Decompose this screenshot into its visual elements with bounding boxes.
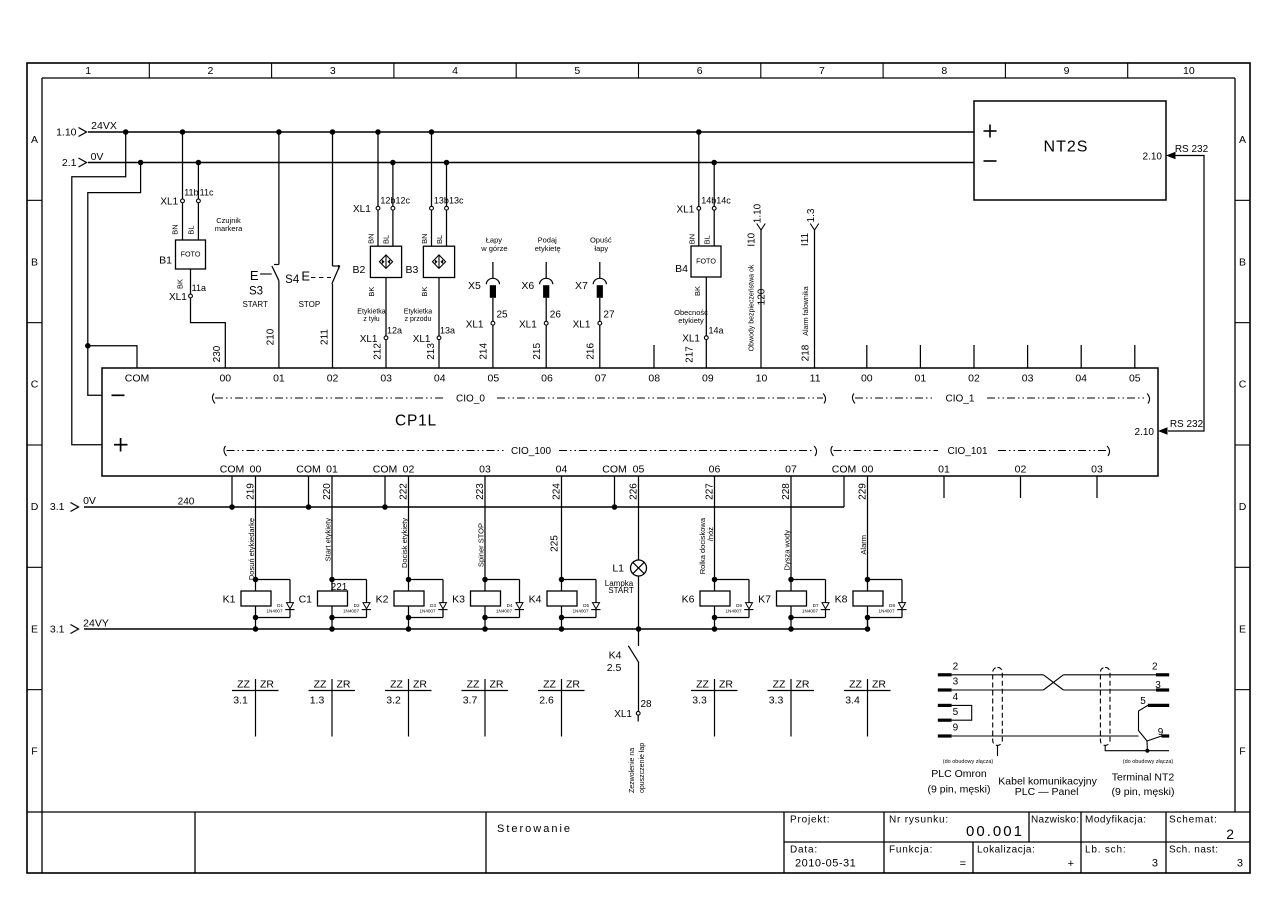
- svg-text:02: 02: [403, 464, 415, 476]
- svg-text:05: 05: [1129, 373, 1141, 385]
- svg-text:etykiety: etykiety: [678, 316, 704, 325]
- svg-text:opuszczenie łap: opuszczenie łap: [639, 743, 646, 793]
- cross-reference table ZZ/ZR 3.2 at x=408.5: [385, 679, 432, 737]
- relay K4: [529, 476, 601, 632]
- svg-text:ZR: ZR: [872, 679, 886, 691]
- svg-text:220: 220: [322, 483, 333, 500]
- svg-text:3: 3: [1152, 858, 1158, 870]
- svg-text:01: 01: [326, 464, 338, 476]
- svg-text:27: 27: [603, 310, 615, 321]
- svg-text:ZR: ZR: [413, 679, 427, 691]
- svg-text:07: 07: [595, 373, 607, 385]
- svg-text:CP1L: CP1L: [395, 413, 437, 430]
- svg-text:2.1: 2.1: [62, 157, 77, 169]
- svg-text:I10: I10: [746, 232, 757, 246]
- svg-text:10: 10: [1183, 65, 1195, 77]
- svg-text:1.3: 1.3: [806, 208, 817, 222]
- svg-text:03: 03: [1091, 464, 1103, 476]
- svg-text:B: B: [1239, 256, 1246, 268]
- svg-text:2: 2: [208, 65, 214, 77]
- stub wires CIO_1 00-05: [867, 345, 1135, 368]
- wire 24VX rail: [88, 131, 974, 133]
- svg-text:CIO_1: CIO_1: [946, 394, 975, 405]
- svg-text:NT2S: NT2S: [1044, 139, 1089, 156]
- svg-text:212: 212: [373, 343, 384, 360]
- svg-text:BL: BL: [381, 235, 390, 244]
- svg-text:PLC Omron: PLC Omron: [931, 768, 987, 780]
- svg-text:223: 223: [475, 483, 486, 500]
- svg-text:ZZ: ZZ: [773, 679, 786, 691]
- svg-text:3: 3: [330, 65, 336, 77]
- svg-text:XL1: XL1: [573, 319, 591, 330]
- svg-text:218: 218: [801, 344, 812, 361]
- svg-text:Lb. sch:: Lb. sch:: [1085, 845, 1126, 856]
- svg-text:215: 215: [532, 343, 543, 360]
- svg-text:XL1: XL1: [353, 204, 371, 215]
- svg-text:0V: 0V: [83, 495, 96, 507]
- svg-text:B2: B2: [353, 264, 366, 276]
- svg-text:2.5: 2.5: [607, 662, 622, 674]
- cross-reference table ZZ/ZR 3.1 at x=255.5: [232, 679, 279, 737]
- wire PLC COM to 0V at x=614.5: [612, 476, 618, 510]
- svg-text:3: 3: [953, 677, 959, 688]
- svg-text:ZZ: ZZ: [467, 679, 480, 691]
- svg-text:Obwody bezpieczeństwa ok: Obwody bezpieczeństwa ok: [748, 264, 755, 351]
- svg-text:5: 5: [953, 707, 959, 718]
- svg-text:Terminal NT2: Terminal NT2: [1112, 772, 1175, 784]
- svg-text:BN: BN: [687, 234, 696, 244]
- svg-text:BN: BN: [171, 224, 180, 234]
- svg-text:Funkcja:: Funkcja:: [889, 845, 933, 856]
- svg-text:3.1: 3.1: [233, 695, 248, 707]
- svg-text:XL1: XL1: [466, 319, 484, 330]
- lamp L1 (Lampka START): [605, 476, 647, 632]
- svg-text:03: 03: [1022, 373, 1034, 385]
- svg-text:5: 5: [574, 65, 580, 77]
- svg-text:01: 01: [273, 373, 285, 385]
- relay K2 (Docisk etykiety): [376, 476, 448, 632]
- svg-text:226: 226: [628, 483, 639, 500]
- relay K7 (Dysza wody): [758, 476, 830, 632]
- svg-text:3.1: 3.1: [50, 501, 65, 513]
- photo sensor B4 (Obecnosc etykiety): [674, 129, 731, 368]
- svg-text:COM: COM: [373, 464, 398, 476]
- svg-text:219: 219: [246, 483, 257, 500]
- wire 24VY rail: [84, 618, 868, 629]
- relay K6 (Rolka dociskowa/noz): [682, 476, 754, 632]
- svg-text:8: 8: [941, 65, 947, 77]
- svg-text:1.3: 1.3: [310, 695, 325, 707]
- relay K1 (Dosun etykiedarke): [223, 476, 295, 632]
- cross-reference table ZZ/ZR 2.6 at x=561.5: [538, 679, 585, 737]
- svg-text:E: E: [301, 269, 310, 284]
- svg-text:214: 214: [479, 343, 490, 360]
- svg-text:Etykietka: Etykietka: [404, 308, 433, 315]
- svg-text:14b14c: 14b14c: [701, 195, 731, 205]
- svg-text:Zezwolenie na: Zezwolenie na: [629, 748, 636, 793]
- svg-text:ZR: ZR: [566, 679, 580, 691]
- svg-text:ZR: ZR: [796, 679, 810, 691]
- svg-text:2.10: 2.10: [1135, 427, 1155, 438]
- svg-text:BN: BN: [367, 233, 376, 243]
- signal I11 (Alarm falownika, from 1.3): [800, 208, 819, 368]
- svg-text:BL: BL: [435, 235, 444, 244]
- svg-text:3.4: 3.4: [845, 695, 860, 707]
- svg-text:E: E: [31, 623, 38, 635]
- svg-text:2: 2: [953, 662, 959, 673]
- svg-text:1N4007: 1N4007: [572, 608, 589, 613]
- svg-text:markera: markera: [215, 224, 243, 233]
- svg-text:3: 3: [1237, 858, 1243, 870]
- svg-text:04: 04: [434, 373, 446, 385]
- svg-text:/nóż: /nóż: [706, 527, 715, 541]
- svg-text:START: START: [608, 586, 634, 595]
- svg-text:3.1: 3.1: [50, 624, 65, 636]
- proximity switch X5 (Lapy w gorze): [466, 236, 508, 369]
- svg-text:210: 210: [266, 328, 277, 345]
- svg-text:ZZ: ZZ: [390, 679, 403, 691]
- svg-text:217: 217: [685, 346, 696, 363]
- svg-text:Schemat:: Schemat:: [1169, 815, 1218, 826]
- svg-text:Data:: Data:: [790, 845, 818, 856]
- relay K3 (Spiner STOP): [452, 476, 524, 632]
- svg-text:XL1: XL1: [519, 319, 537, 330]
- signal I10 (Obwody bezpieczenstwa ok, from 1.10): [746, 203, 767, 368]
- svg-text:7: 7: [819, 65, 825, 77]
- svg-text:1N4007: 1N4007: [419, 608, 436, 613]
- svg-text:1N4007: 1N4007: [725, 608, 742, 613]
- wire 0V output rail: [84, 476, 844, 508]
- svg-text:COM: COM: [220, 464, 245, 476]
- svg-text:28: 28: [641, 699, 653, 710]
- svg-text:etykietę: etykietę: [535, 244, 561, 253]
- svg-text:Projekt:: Projekt:: [790, 815, 830, 826]
- svg-text:B1: B1: [159, 255, 172, 267]
- svg-text:C: C: [1239, 379, 1247, 391]
- contact K4 2.5 (Zezwolenie na opuszczenie lap): [607, 629, 652, 793]
- svg-text:09: 09: [702, 373, 714, 385]
- svg-text:Alarm: Alarm: [859, 535, 868, 555]
- svg-text:A: A: [1239, 134, 1246, 146]
- svg-text:X6: X6: [521, 280, 534, 292]
- svg-text:4: 4: [452, 65, 458, 77]
- svg-text:z przodu: z przodu: [405, 316, 432, 323]
- source arrow 1.10 24VX: [56, 120, 117, 139]
- svg-text:Sch. nast:: Sch. nast:: [1169, 845, 1218, 856]
- svg-text:ZR: ZR: [260, 679, 274, 691]
- svg-text:RS 232: RS 232: [1175, 144, 1209, 155]
- svg-text:CIO_101: CIO_101: [947, 446, 987, 457]
- svg-text:13b13c: 13b13c: [434, 195, 464, 205]
- cross-reference table ZZ/ZR 3.3 at x=714.5: [691, 679, 738, 737]
- cross-reference table ZZ/ZR 3.4 at x=867.5: [844, 679, 891, 737]
- svg-text:1N4007: 1N4007: [496, 608, 513, 613]
- svg-text:B: B: [31, 256, 38, 268]
- stub wire terminal 08: [653, 345, 655, 368]
- source arrow 3.1 24VY: [50, 618, 109, 636]
- svg-text:Spiner STOP: Spiner STOP: [477, 523, 486, 567]
- svg-text:A: A: [31, 134, 38, 146]
- svg-text:05: 05: [633, 464, 645, 476]
- panel terminal NT2S: [974, 101, 1166, 200]
- reflex sensor B2 (Etykietka z tylu): [353, 129, 411, 368]
- svg-text:230: 230: [212, 345, 223, 362]
- svg-text:120: 120: [757, 288, 768, 305]
- svg-text:24VX: 24VX: [91, 120, 117, 132]
- svg-text:COM: COM: [296, 464, 321, 476]
- svg-text:D: D: [31, 501, 39, 513]
- svg-text:07: 07: [785, 464, 797, 476]
- svg-text:3.3: 3.3: [769, 695, 784, 707]
- svg-text:26: 26: [550, 310, 562, 321]
- svg-text:XL1: XL1: [160, 197, 178, 208]
- svg-text:216: 216: [586, 343, 597, 360]
- source arrow 2.1 0V: [62, 151, 104, 169]
- svg-text:2.6: 2.6: [539, 695, 554, 707]
- svg-text:K1: K1: [223, 594, 236, 606]
- svg-text:X5: X5: [468, 280, 481, 292]
- svg-text:(do obudowy złącza): (do obudowy złącza): [943, 759, 994, 765]
- wire 0V rail: [88, 162, 974, 164]
- svg-text:BK: BK: [420, 287, 429, 297]
- svg-text:06: 06: [709, 464, 721, 476]
- svg-text:24VY: 24VY: [83, 618, 109, 630]
- svg-text:12b12c: 12b12c: [380, 195, 410, 205]
- svg-text:03: 03: [380, 373, 392, 385]
- svg-text:Dysza wody: Dysza wody: [783, 530, 792, 571]
- svg-text:221: 221: [331, 582, 348, 593]
- svg-text:w górze: w górze: [480, 244, 507, 253]
- svg-text:COM: COM: [602, 464, 627, 476]
- svg-text:ZZ: ZZ: [237, 679, 250, 691]
- svg-text:02: 02: [327, 373, 339, 385]
- svg-text:B4: B4: [675, 263, 688, 275]
- svg-text:06: 06: [541, 373, 553, 385]
- wire RS 232 NT2S to PLC: [1135, 144, 1209, 438]
- svg-text:D: D: [1239, 501, 1247, 513]
- svg-text:224: 224: [552, 483, 563, 500]
- svg-text:CIO_100: CIO_100: [511, 446, 551, 457]
- svg-text:229: 229: [858, 483, 869, 500]
- svg-text:(9 pin, męski): (9 pin, męski): [1111, 786, 1174, 798]
- svg-text:K6: K6: [682, 594, 695, 606]
- svg-text:3: 3: [1155, 680, 1161, 691]
- svg-text:ZZ: ZZ: [849, 679, 862, 691]
- svg-text:4: 4: [953, 692, 959, 703]
- svg-text:FOTO: FOTO: [181, 249, 201, 258]
- svg-text:11a: 11a: [192, 283, 206, 293]
- stub wires CIO_101 01-03: [944, 476, 1097, 498]
- wire PLC COM to 0V at x=232: [229, 476, 235, 510]
- svg-text:BL: BL: [703, 235, 712, 244]
- svg-text:Docisk etykiety: Docisk etykiety: [400, 518, 409, 568]
- svg-text:START: START: [242, 300, 268, 309]
- svg-text:02: 02: [1015, 464, 1027, 476]
- svg-text:1.10: 1.10: [56, 127, 77, 139]
- proximity switch X7 (Opusc lapy): [573, 236, 615, 369]
- svg-text:Rolka dociskowa: Rolka dociskowa: [698, 517, 707, 574]
- wire 24VX to PLC plus: [72, 129, 129, 444]
- wire PLC COM to 0V at x=385: [382, 476, 388, 510]
- svg-text:04: 04: [556, 464, 568, 476]
- wire PLC COM to 0V at x=308.5: [306, 476, 312, 510]
- svg-text:0V: 0V: [91, 151, 104, 163]
- svg-text:10: 10: [756, 373, 768, 385]
- svg-text:ZR: ZR: [490, 679, 504, 691]
- svg-text:213: 213: [426, 343, 437, 360]
- svg-text:L1: L1: [612, 563, 624, 575]
- svg-text:03: 03: [479, 464, 491, 476]
- svg-text:XL1: XL1: [677, 204, 695, 215]
- connector cable diagram PLC Omron - Terminal NT2: [927, 662, 1174, 799]
- svg-text:14a: 14a: [708, 325, 723, 335]
- svg-text:3.2: 3.2: [386, 695, 401, 707]
- svg-text:XL1: XL1: [169, 292, 187, 303]
- svg-text:BN: BN: [420, 233, 429, 243]
- cross-reference table ZZ/ZR 1.3 at x=332: [309, 679, 356, 737]
- proximity switch X6 (Podaj etykiete): [519, 236, 561, 369]
- svg-text:02: 02: [968, 373, 980, 385]
- svg-text:225: 225: [550, 535, 561, 552]
- svg-text:(9 pin, męski): (9 pin, męski): [927, 783, 990, 795]
- svg-text:1N4007: 1N4007: [878, 608, 895, 613]
- svg-text:11b: 11b: [184, 188, 198, 198]
- svg-text:Nazwisko:: Nazwisko:: [1031, 815, 1079, 826]
- svg-text:+: +: [1068, 858, 1074, 870]
- svg-text:K4: K4: [609, 649, 622, 661]
- svg-text:S3: S3: [249, 286, 263, 298]
- svg-text:00: 00: [861, 373, 873, 385]
- svg-text:05: 05: [488, 373, 500, 385]
- svg-text:1: 1: [85, 65, 91, 77]
- switch S3 START: [242, 129, 281, 368]
- svg-text:222: 222: [399, 483, 410, 500]
- svg-text:228: 228: [781, 483, 792, 500]
- svg-text:04: 04: [1075, 373, 1087, 385]
- PLC U1 CP1L: [102, 368, 1158, 476]
- svg-text:K4: K4: [529, 594, 542, 606]
- svg-text:XL1: XL1: [682, 334, 700, 345]
- svg-text:BL: BL: [187, 225, 196, 234]
- svg-text:BK: BK: [175, 279, 184, 289]
- svg-text:Sterowanie: Sterowanie: [497, 823, 572, 835]
- source arrow 3.1 0V (bottom): [50, 495, 96, 513]
- svg-text:COM: COM: [125, 373, 150, 385]
- svg-text:01: 01: [938, 464, 950, 476]
- svg-text:2: 2: [1152, 662, 1158, 673]
- svg-text:1.10: 1.10: [753, 203, 764, 223]
- svg-text:2010-05-31: 2010-05-31: [795, 858, 856, 870]
- svg-text:01: 01: [915, 373, 927, 385]
- svg-text:2.10: 2.10: [1143, 152, 1163, 163]
- svg-text:łapy: łapy: [594, 244, 608, 253]
- svg-text:5: 5: [1140, 696, 1146, 707]
- svg-text:240: 240: [178, 497, 195, 508]
- svg-text:ZR: ZR: [719, 679, 733, 691]
- svg-text:9: 9: [1064, 65, 1070, 77]
- svg-text:(do obudowy złącza): (do obudowy złącza): [1123, 759, 1174, 765]
- svg-text:RS 232: RS 232: [1170, 419, 1204, 430]
- svg-text:Dosuń etykiedarkę: Dosuń etykiedarkę: [247, 518, 256, 580]
- svg-text:=: =: [960, 858, 966, 870]
- switch S4 STOP: [285, 129, 340, 368]
- svg-text:F: F: [31, 746, 37, 758]
- wire 0V to PLC COM and minus: [85, 160, 143, 396]
- svg-text:211: 211: [319, 329, 330, 345]
- svg-text:Start etykiety: Start etykiety: [324, 518, 333, 562]
- photo sensor B1 (Czujnik markera): [159, 129, 243, 368]
- svg-text:00.001: 00.001: [966, 823, 1024, 840]
- svg-text:3.7: 3.7: [463, 695, 478, 707]
- svg-text:1N4007: 1N4007: [266, 608, 283, 613]
- svg-text:CIO_0: CIO_0: [456, 394, 485, 405]
- svg-text:Etykietka: Etykietka: [357, 308, 386, 315]
- cross-reference table ZZ/ZR 3.3 at x=791: [768, 679, 815, 737]
- svg-text:E: E: [1239, 623, 1246, 635]
- svg-text:9: 9: [953, 723, 959, 734]
- svg-text:6: 6: [697, 65, 703, 77]
- svg-text:S4: S4: [285, 274, 300, 286]
- svg-text:25: 25: [497, 310, 509, 321]
- svg-text:1N4007: 1N4007: [343, 608, 360, 613]
- svg-text:z tyłu: z tyłu: [363, 316, 379, 323]
- svg-text:3.3: 3.3: [692, 695, 707, 707]
- svg-text:00: 00: [250, 464, 262, 476]
- svg-text:STOP: STOP: [299, 300, 321, 309]
- svg-text:11c: 11c: [200, 188, 214, 198]
- svg-text:1N4007: 1N4007: [802, 608, 819, 613]
- svg-text:COM: COM: [832, 464, 857, 476]
- svg-text:FOTO: FOTO: [696, 256, 716, 265]
- svg-text:Modyfikacja:: Modyfikacja:: [1085, 815, 1147, 826]
- svg-text:C: C: [31, 379, 39, 391]
- svg-text:K2: K2: [376, 594, 389, 606]
- svg-text:F: F: [1239, 746, 1245, 758]
- svg-text:13a: 13a: [440, 326, 455, 336]
- svg-text:Lokalizacja:: Lokalizacja:: [977, 845, 1035, 856]
- relay C1 (Start etykiety): [299, 476, 371, 632]
- svg-text:K8: K8: [835, 594, 848, 606]
- svg-text:Nr rysunku:: Nr rysunku:: [889, 815, 949, 826]
- svg-text:ZZ: ZZ: [543, 679, 556, 691]
- svg-text:ZZ: ZZ: [696, 679, 709, 691]
- svg-text:B3: B3: [406, 264, 419, 276]
- reflex sensor B3 (Etykietka z przodu): [404, 129, 464, 368]
- svg-text:BK: BK: [367, 287, 376, 297]
- svg-text:BK: BK: [693, 286, 702, 296]
- svg-text:I11: I11: [800, 232, 811, 246]
- svg-text:Alarm falownika: Alarm falownika: [803, 286, 810, 336]
- svg-text:ZR: ZR: [337, 679, 351, 691]
- svg-text:C1: C1: [299, 594, 313, 606]
- svg-text:E: E: [250, 268, 259, 283]
- svg-text:K7: K7: [758, 594, 771, 606]
- relay K8 (Alarm): [835, 476, 907, 632]
- svg-text:08: 08: [648, 373, 660, 385]
- cross-reference table ZZ/ZR 3.7 at x=485: [462, 679, 509, 737]
- svg-text:XL1: XL1: [614, 709, 632, 720]
- svg-text:12a: 12a: [387, 326, 402, 336]
- svg-text:PLC — Panel: PLC — Panel: [1015, 786, 1079, 798]
- svg-text:ZZ: ZZ: [314, 679, 327, 691]
- svg-text:227: 227: [705, 483, 716, 500]
- svg-text:00: 00: [862, 464, 874, 476]
- svg-text:11: 11: [810, 373, 821, 385]
- svg-text:00: 00: [219, 373, 231, 385]
- svg-text:2: 2: [1226, 826, 1234, 842]
- svg-text:X7: X7: [575, 280, 588, 292]
- svg-text:K3: K3: [452, 594, 465, 606]
